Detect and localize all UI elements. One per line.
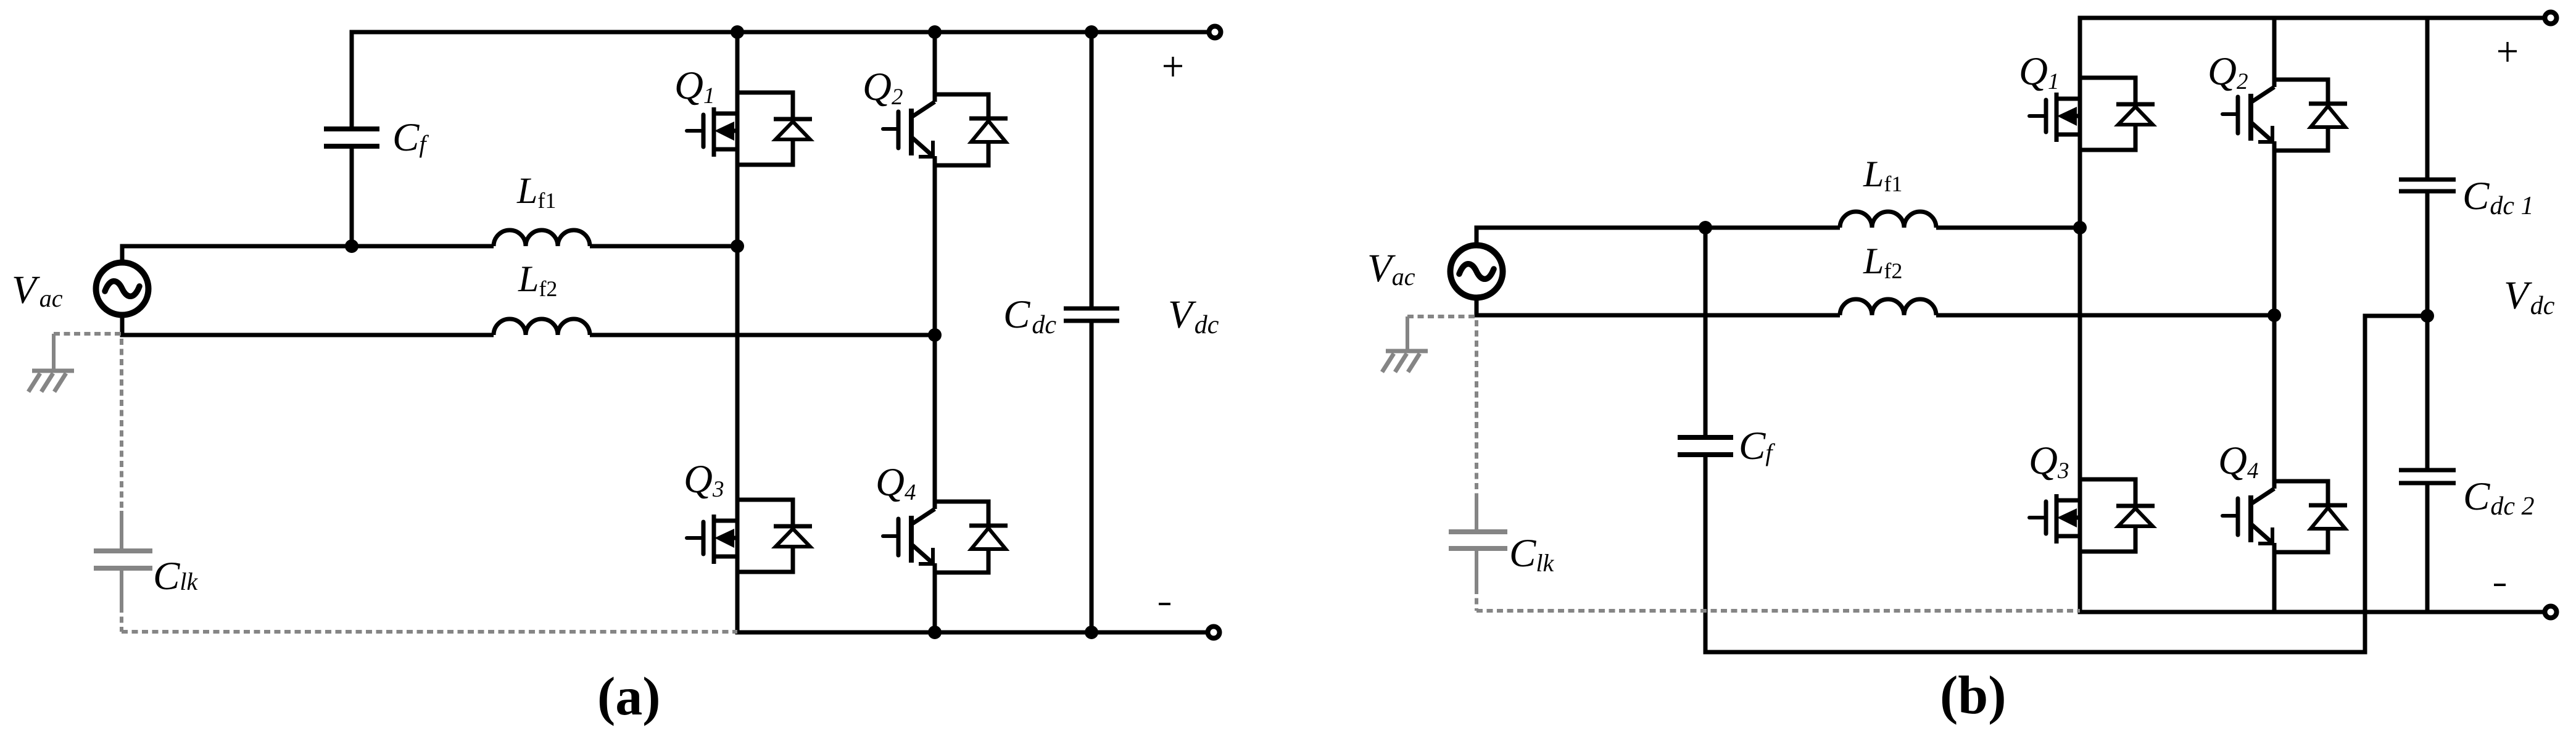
wire: (b) dashed Clk top (1475, 320, 1478, 497)
label Cdc1 (b) (2462, 174, 2534, 220)
label Q3 (a) (684, 457, 724, 502)
wire: (a) Vac top lead + line1 to Lf1 (122, 246, 494, 262)
node: (a) leg2 mid junction (928, 328, 942, 342)
terminal: (a) - output (1208, 627, 1220, 639)
transistor Q4 (a) IGBT (883, 502, 1008, 573)
node: (a) Cdc top junction (1085, 25, 1098, 39)
label Cf (a) (392, 115, 429, 160)
node: (b) leg2 mid junction (2267, 308, 2281, 322)
label Vdc (a) (1168, 292, 1219, 339)
transistor Q3 (a) MOSFET (687, 500, 812, 572)
label + (a) (1164, 57, 1182, 76)
wire: (a) Lf2 to leg2 mid node (590, 333, 935, 337)
svg-text:(b): (b) (1940, 666, 2007, 726)
label Q2 (a) (863, 65, 903, 110)
transistor Q3 (b) MOSFET (2029, 479, 2155, 552)
terminal: (a) + output (1209, 27, 1221, 38)
wire: (b) bottom rail (2078, 610, 2545, 614)
label - (b) (2494, 584, 2506, 586)
node: (b) leg1 mid junction (2073, 221, 2087, 234)
caption (b) (1940, 666, 2007, 726)
wire: (a) leg1 vertical (Q1/Q3 leg) (735, 32, 740, 632)
ground (a) (28, 334, 74, 392)
wire: (a) bottom rail (735, 631, 1208, 635)
wire: (a) Cdc leg (1090, 32, 1094, 632)
node: (a) leg1 top junction (731, 25, 744, 39)
inductor Lf1 (a) (494, 230, 590, 246)
wire: (b) Cf bottom path to DC midpoint (1705, 316, 2427, 652)
ground (b) (1382, 316, 1428, 372)
capacitor Clk (b) (1449, 495, 1507, 589)
wire: (a) dashed bottom run (122, 630, 737, 634)
svg-text:(a): (a) (597, 667, 661, 727)
wire: (b) Cdc leg (2425, 18, 2430, 612)
node: (a) Cf/Lf1 junction (345, 239, 358, 253)
capacitor Clk (a) (94, 511, 152, 608)
node: (a) leg2 bottom junction (928, 626, 942, 639)
transistor Q1 (b) MOSFET (2029, 78, 2155, 150)
wire: (a) Lf1 to bridge mid node (590, 244, 737, 249)
AC source Vac (a) (96, 263, 149, 315)
label - (a) (1159, 603, 1170, 605)
wire: (b) leg2 vertical segments (Q2/Q4 leg) (2272, 18, 2277, 612)
AC source Vac (b) (1451, 246, 1503, 298)
capacitor Cf (b) (1678, 437, 1733, 455)
node: (b) DC midpoint junction (2421, 309, 2434, 323)
node: (a) leg2 top junction (928, 25, 942, 39)
label Clk (b) (1509, 531, 1554, 577)
label Cf (b) (1739, 424, 1775, 468)
wire: (a) dashed Clk bottom (120, 606, 123, 632)
terminal: (b) + output (2545, 12, 2557, 24)
label Vac (a) (12, 268, 63, 312)
wire: (a) dashed Clk top (120, 339, 123, 512)
capacitor Cdc (a) (1064, 308, 1119, 321)
wire: (b) dashed bottom run (1476, 609, 2080, 613)
inductor Lf1 (b) (1840, 212, 1936, 228)
wire: (b) Cf top lead (1704, 228, 1708, 437)
wire: (a) top rail with Cf corner (352, 32, 1209, 129)
label Cdc2 (b) (2463, 474, 2535, 521)
label + (b) (2498, 42, 2517, 62)
wire: (a) leg2 vertical segments (Q2/Q4 leg) (933, 32, 937, 632)
wire: (a) Cf bottom lead (350, 146, 354, 246)
label Lf1 (b) (1863, 154, 1902, 196)
label Lf2 (a) (518, 258, 557, 301)
label Q1 (a) (674, 64, 714, 109)
capacitor Cdc1 (b) (2399, 180, 2456, 191)
node: (a) leg1 mid junction (731, 239, 744, 253)
label Lf2 (b) (1863, 241, 1902, 283)
transistor Q4 (b) IGBT (2222, 481, 2347, 552)
label Lf1 (a) (516, 170, 556, 213)
wire: (a) Vac bottom lead + line2 to Lf2 (122, 316, 494, 335)
wire: (b) Lf1 to leg1 (1936, 226, 2080, 230)
inductor Lf2 (b) (1840, 299, 1936, 315)
label Vdc (b) (2504, 273, 2555, 320)
capacitor Cf (a) (324, 129, 379, 146)
capacitor Cdc2 (b) (2399, 470, 2456, 483)
node: (b) Cf top junction (1699, 221, 1712, 234)
wire: (b) Vac top lead + line1 (1476, 228, 1840, 244)
wire: (a) dashed ground link (54, 332, 122, 336)
caption (a) (597, 667, 661, 727)
transistor Q2 (a) IGBT (883, 94, 1008, 165)
label Q4 (a) (876, 460, 916, 505)
wire: (b) dashed ground link (1407, 315, 1476, 318)
terminal: (b) - output (2545, 606, 2557, 618)
wire: (b) dashed Clk bottom (1475, 588, 1478, 611)
label Q2 (b) (2208, 49, 2248, 94)
transistor Q1 (a) MOSFET (687, 93, 812, 165)
label Q4 (b) (2218, 439, 2258, 484)
node: (a) Cdc bottom junction (1085, 626, 1098, 639)
wire: (b) leg1 vertical (Q1/Q3 leg) (2078, 18, 2082, 612)
label Cdc (a) (1003, 292, 1056, 339)
inductor Lf2 (a) (494, 319, 590, 335)
wire: (b) Vac bottom lead + line2 (1476, 299, 1840, 315)
label Vac (b) (1367, 246, 1415, 291)
label Q1 (b) (2019, 49, 2059, 94)
wire: (b) Lf2 to leg2 (1936, 313, 2274, 318)
transistor Q2 (b) IGBT (2222, 80, 2347, 151)
label Q3 (b) (2029, 439, 2069, 484)
label Clk (a) (153, 554, 198, 598)
wire: (b) top rail (2078, 16, 2545, 20)
